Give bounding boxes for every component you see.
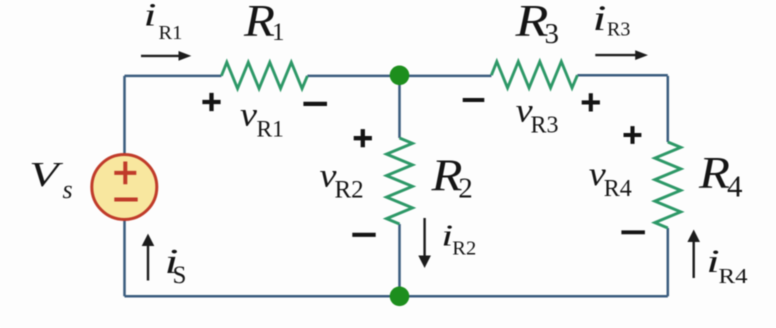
svg-text:v: v bbox=[240, 96, 258, 133]
svg-text:R2: R2 bbox=[452, 238, 476, 260]
svg-text:4: 4 bbox=[727, 169, 743, 204]
svg-text:s: s bbox=[63, 175, 73, 204]
svg-text:2: 2 bbox=[458, 173, 473, 205]
svg-text:1: 1 bbox=[272, 19, 285, 46]
svg-text:R3: R3 bbox=[607, 18, 630, 40]
svg-text:R2: R2 bbox=[335, 176, 364, 203]
svg-text:S: S bbox=[173, 262, 187, 289]
svg-text:R3: R3 bbox=[531, 113, 559, 139]
svg-text:R4: R4 bbox=[719, 264, 749, 288]
svg-text:i: i bbox=[593, 0, 607, 38]
svg-text:R: R bbox=[243, 0, 275, 46]
svg-text:3: 3 bbox=[545, 18, 560, 50]
svg-text:R1: R1 bbox=[159, 22, 183, 44]
svg-text:R1: R1 bbox=[257, 116, 284, 142]
svg-text:V: V bbox=[29, 155, 63, 194]
svg-text:R: R bbox=[698, 148, 730, 198]
svg-text:R4: R4 bbox=[604, 176, 632, 202]
svg-text:i: i bbox=[144, 0, 157, 34]
svg-text:R: R bbox=[514, 0, 548, 46]
